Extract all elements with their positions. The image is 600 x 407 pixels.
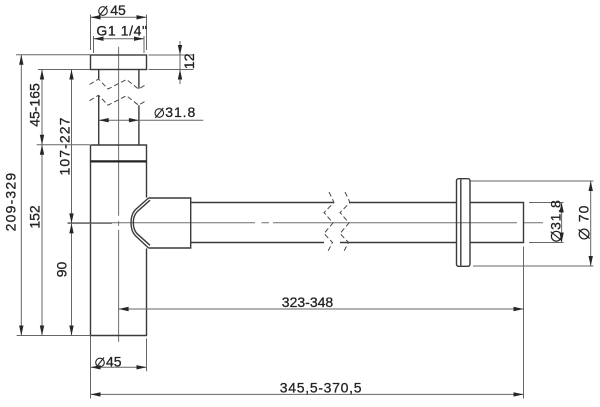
svg-text:152: 152 bbox=[26, 205, 42, 229]
svg-text:31.8: 31.8 bbox=[165, 104, 196, 120]
svg-text:345,5-370,5: 345,5-370,5 bbox=[280, 379, 362, 395]
svg-text:70: 70 bbox=[575, 205, 591, 223]
svg-text:45-165: 45-165 bbox=[26, 83, 42, 127]
svg-text:323-348: 323-348 bbox=[282, 294, 334, 310]
svg-text:12: 12 bbox=[181, 53, 197, 69]
svg-text:31.8: 31.8 bbox=[548, 199, 564, 229]
svg-text:45: 45 bbox=[110, 2, 126, 18]
svg-text:45: 45 bbox=[106, 353, 122, 369]
svg-text:209-329: 209-329 bbox=[2, 172, 18, 232]
svg-text:107-227: 107-227 bbox=[56, 116, 72, 175]
svg-text:G1 1/4": G1 1/4" bbox=[96, 23, 147, 39]
svg-text:90: 90 bbox=[53, 262, 69, 278]
